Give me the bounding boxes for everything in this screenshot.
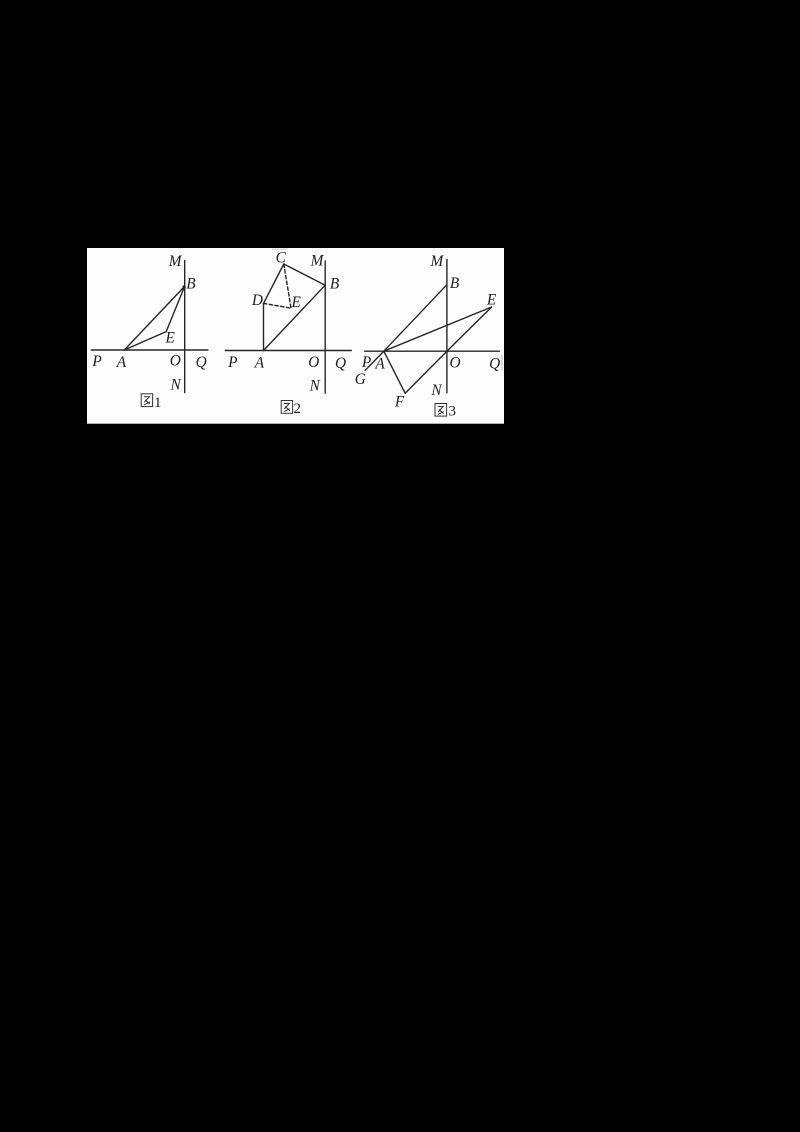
svg-text:G: G — [355, 371, 366, 388]
faint smudge above C fig2 — [272, 249, 288, 250]
svg-text:E: E — [486, 292, 497, 309]
fig2 segment DE dashed — [264, 303, 292, 308]
fig1 segment EB — [166, 286, 184, 331]
fig2 segment CB — [284, 264, 325, 285]
svg-text:O: O — [308, 354, 319, 371]
svg-text:2: 2 — [293, 401, 301, 417]
svg-text:B: B — [186, 275, 196, 292]
fig2 segment CE dashed — [284, 264, 291, 308]
svg-text:P: P — [227, 354, 237, 371]
svg-text:A: A — [116, 354, 127, 371]
svg-text:D: D — [251, 292, 263, 309]
fig3 segment EO — [447, 307, 492, 351]
fig2 line PQ (horizontal) — [225, 350, 351, 352]
svg-text:O: O — [170, 352, 181, 369]
svg-text:P: P — [91, 353, 101, 370]
svg-text:M: M — [168, 253, 183, 270]
svg-text:Q: Q — [335, 355, 346, 372]
fig3 line PQ (horizontal) — [365, 350, 500, 352]
fig2 segment DA — [263, 303, 265, 350]
svg-text:Q: Q — [489, 356, 500, 373]
fig2 segment AB — [264, 285, 326, 350]
white panel — [87, 248, 504, 424]
svg-text:C: C — [276, 250, 287, 267]
fig3 segment OF — [405, 351, 447, 393]
svg-text:Q: Q — [196, 354, 207, 371]
svg-text:O: O — [449, 354, 460, 371]
fig3 segment BA — [384, 285, 447, 352]
fig2 segment CD — [264, 264, 284, 303]
fig1 point B dot — [182, 285, 185, 288]
svg-text:3: 3 — [449, 403, 457, 419]
svg-text:A: A — [374, 356, 385, 373]
fig1 line PQ (horizontal) — [91, 349, 208, 351]
svg-text:M: M — [310, 253, 325, 270]
svg-text:1: 1 — [154, 395, 162, 411]
svg-text:P: P — [361, 354, 371, 371]
svg-text:B: B — [450, 275, 460, 292]
svg-text:E: E — [291, 294, 302, 311]
svg-text:F: F — [394, 393, 405, 410]
svg-text:N: N — [430, 382, 442, 399]
fig3 line MN (vertical) — [446, 260, 448, 393]
fig1 segment AB — [124, 286, 184, 350]
fig1 segment AE — [124, 332, 166, 350]
caption 图1 glyph — [141, 394, 152, 407]
svg-text:N: N — [309, 378, 321, 395]
svg-text:E: E — [165, 330, 176, 347]
svg-text:N: N — [169, 377, 181, 394]
caption 图2 glyph — [281, 401, 292, 414]
fig3 segment AE — [384, 307, 492, 351]
fig3 segment AG — [365, 351, 384, 370]
fig2 line MN (vertical) — [324, 261, 326, 393]
svg-text:M: M — [430, 253, 445, 270]
fig3 segment AF — [384, 351, 405, 393]
caption 图3 glyph — [435, 404, 447, 417]
svg-text:B: B — [330, 276, 340, 293]
faint strip right edge fig3 — [501, 355, 503, 370]
fig1 line MN (vertical) — [184, 260, 186, 392]
svg-text:A: A — [254, 355, 265, 372]
